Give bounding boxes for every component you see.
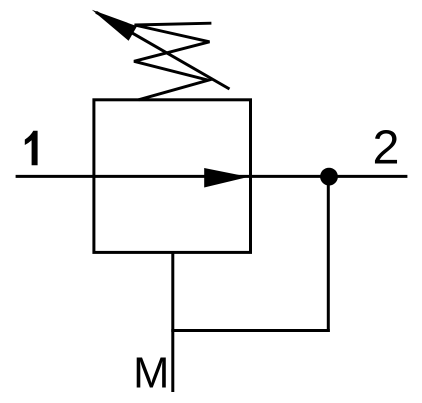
wire: pilot line vertical from junction down — [327, 177, 330, 332]
svg-text:2: 2 — [373, 121, 400, 175]
wire: main flow path from port 1 to port 2 — [16, 175, 408, 178]
wire: drain / gauge port line below valve — [171, 252, 174, 392]
port label 1 (drawn as path, Arial-style without foot serif) — [25, 131, 38, 165]
svg-text:M: M — [133, 350, 169, 398]
valve body U1 (square) — [94, 100, 251, 253]
flow direction arrowhead — [204, 168, 248, 188]
spring (adjustable, zigzag) — [134, 23, 211, 100]
wire: pilot line horizontal bottom — [171, 329, 329, 332]
junction node (dot) on outlet line — [320, 168, 338, 186]
adjustment arrowhead — [92, 10, 137, 41]
adjustment arrow shaft — [96, 12, 230, 89]
